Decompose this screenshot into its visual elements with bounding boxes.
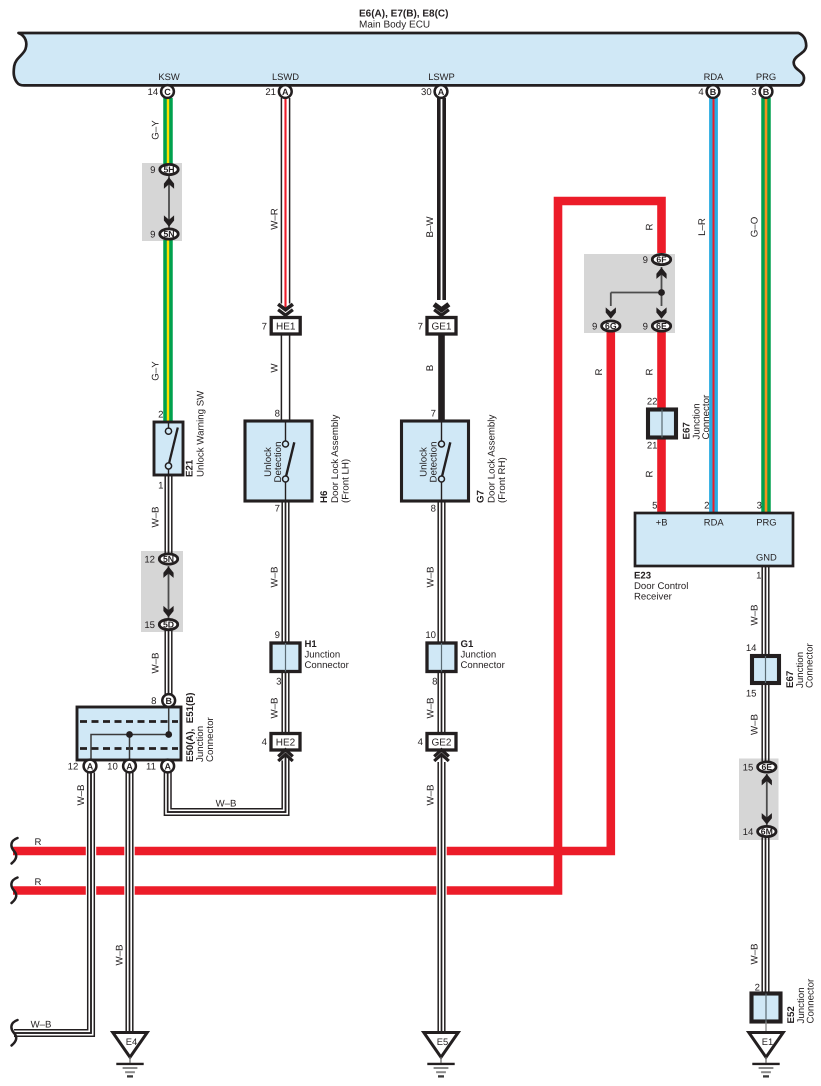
- svg-text:Connector: Connector: [461, 660, 506, 671]
- wire W-B G1 pin 8 to GE2: [438, 670, 445, 735]
- svg-text:21: 21: [647, 441, 658, 452]
- pin 3 B of ECU: [760, 85, 773, 98]
- svg-text:1: 1: [756, 571, 761, 582]
- svg-text:A: A: [87, 761, 94, 771]
- pin 14 C of ECU: [161, 85, 174, 98]
- arrow out of HE2: [278, 750, 293, 761]
- svg-text:Connector: Connector: [305, 660, 350, 671]
- connector HE2 pin 4: [271, 734, 300, 751]
- svg-text:14: 14: [148, 87, 159, 98]
- label Unlock Detection in G7: [419, 442, 440, 483]
- svg-text:W–B: W–B: [749, 605, 760, 626]
- connector-pair shade box 5N/5D: [141, 551, 183, 632]
- svg-text:W–B: W–B: [269, 567, 280, 588]
- svg-text:6F: 6F: [656, 255, 666, 265]
- label H1 Junction Connector: [305, 639, 350, 671]
- svg-text:6E: 6E: [761, 762, 772, 772]
- arrow into GE1: [434, 304, 449, 315]
- label E67 Junction Connector lower: [785, 643, 816, 688]
- svg-text:6E: 6E: [656, 321, 667, 331]
- svg-text:6G: 6G: [605, 321, 617, 331]
- ground E5: [424, 1033, 458, 1077]
- svg-text:G–O: G–O: [749, 216, 760, 237]
- svg-text:8: 8: [151, 696, 156, 707]
- svg-text:LSWD: LSWD: [272, 71, 299, 82]
- svg-text:E21: E21: [185, 459, 196, 477]
- svg-text:15: 15: [144, 620, 155, 631]
- svg-text:PRG: PRG: [756, 71, 776, 82]
- wire W-R LSWD from ECU to HE1 arrow: [281, 98, 289, 304]
- connector-pair shade box 6E/6M: [739, 759, 779, 841]
- pin 12 A of E50: [84, 760, 97, 773]
- torn end of upper R wire: [11, 838, 17, 864]
- door control receiver E23: [635, 513, 793, 566]
- svg-text:B: B: [710, 87, 717, 97]
- connector GE2 pin 4: [427, 734, 456, 751]
- junction connector E67 lower: [752, 656, 779, 683]
- wire B from GE1 to G7 pin 7: [438, 334, 445, 422]
- wire W-B H1 pin 3 to HE2: [282, 670, 289, 735]
- wire W-B G7 pin 8 to G1 pin 10: [438, 500, 445, 643]
- svg-text:7: 7: [275, 504, 280, 515]
- arrow into HE1: [278, 304, 293, 315]
- wire W-B GE2 down to ground E5: [438, 762, 445, 1033]
- svg-text:5N: 5N: [163, 229, 174, 239]
- svg-text:4: 4: [698, 87, 704, 98]
- connector-pair shade box 5H/5N: [142, 163, 182, 241]
- svg-text:PRG: PRG: [756, 517, 776, 528]
- wire W-B E21 pin 1 to 5N: [165, 474, 172, 553]
- wire W-B E50 pin 10A down to ground E4: [126, 773, 133, 1034]
- svg-text:Receiver: Receiver: [634, 591, 673, 602]
- svg-text:W–B: W–B: [216, 799, 237, 810]
- svg-text:E23: E23: [634, 571, 651, 582]
- svg-text:W–B: W–B: [151, 653, 162, 674]
- connector 5H pin 9: [160, 164, 178, 174]
- svg-text:Door Lock Assembly: Door Lock Assembly: [487, 415, 498, 503]
- svg-text:14: 14: [746, 643, 757, 654]
- svg-text:9: 9: [643, 322, 648, 333]
- wire G-Y from 5N to E21 pin 2: [163, 240, 173, 423]
- junction connector H1: [271, 643, 300, 672]
- wire G-Y KSW from ECU to 5H: [163, 98, 173, 164]
- svg-text:Connector: Connector: [205, 717, 216, 762]
- svg-text:H1: H1: [305, 639, 318, 650]
- arrow out of GE2: [434, 750, 449, 761]
- connector 6M pin 14: [758, 826, 776, 836]
- svg-text:HE1: HE1: [276, 321, 296, 332]
- svg-text:3: 3: [751, 87, 756, 98]
- svg-text:12: 12: [144, 555, 155, 566]
- wire R torn end to long vertical to 6F: [13, 201, 662, 891]
- connector GE1 pin 7: [427, 318, 456, 335]
- svg-text:G–Y: G–Y: [151, 361, 162, 381]
- svg-text:3: 3: [276, 677, 281, 688]
- svg-text:G–Y: G–Y: [151, 120, 162, 140]
- svg-text:G1: G1: [461, 639, 474, 650]
- label H6 Door Lock Assembly Front LH: [319, 415, 352, 503]
- wire R E67 pin 21 to E23 +B pin 5: [657, 436, 666, 514]
- svg-text:R: R: [35, 877, 42, 888]
- svg-text:R: R: [645, 471, 656, 478]
- svg-text:5H: 5H: [163, 165, 174, 175]
- pin 21 A of ECU: [279, 85, 292, 98]
- svg-text:H6: H6: [319, 490, 330, 503]
- svg-text:8: 8: [431, 504, 436, 515]
- connector HE1 pin 7: [271, 318, 300, 335]
- svg-text:A: A: [126, 761, 133, 771]
- svg-text:RDA: RDA: [704, 71, 725, 82]
- arrow tree between 6F 6G 6E: [606, 267, 667, 319]
- ground E1: [749, 1033, 783, 1077]
- label G1 Junction Connector: [461, 639, 506, 671]
- wire W-B 5D to E50 pin 8B: [165, 631, 172, 695]
- door lock assembly front LH H6: [245, 421, 312, 501]
- svg-text:Connector: Connector: [806, 978, 817, 1023]
- wire W-B H6 pin 7 to H1 pin 9: [282, 500, 289, 643]
- svg-text:G7: G7: [476, 490, 487, 503]
- svg-text:GE1: GE1: [431, 321, 451, 332]
- svg-text:Detection: Detection: [273, 442, 284, 483]
- svg-text:15: 15: [746, 689, 757, 700]
- white halos where ground wires cross red wires: [86, 836, 96, 896]
- svg-text:E6(A), E7(B), E8(C): E6(A), E7(B), E8(C): [359, 9, 448, 20]
- svg-text:RDA: RDA: [704, 517, 725, 528]
- unlock warning switch E21: [154, 422, 183, 475]
- pin 4 B of ECU: [707, 85, 720, 98]
- svg-text:22: 22: [647, 397, 658, 408]
- svg-text:E4: E4: [126, 1036, 137, 1047]
- svg-text:21: 21: [265, 87, 276, 98]
- wire R 6E to E67 pin 22: [657, 332, 666, 411]
- svg-text:R: R: [35, 837, 42, 848]
- svg-text:W–B: W–B: [31, 1020, 52, 1031]
- ground E4: [113, 1033, 147, 1077]
- svg-text:9: 9: [150, 165, 155, 176]
- svg-text:W–B: W–B: [749, 714, 760, 735]
- svg-text:W: W: [269, 363, 280, 373]
- svg-text:5: 5: [652, 501, 657, 512]
- svg-text:6M: 6M: [761, 827, 773, 837]
- svg-text:R: R: [594, 369, 605, 376]
- svg-text:B: B: [425, 365, 436, 371]
- svg-text:L–R: L–R: [697, 218, 708, 236]
- svg-text:Connector: Connector: [701, 394, 712, 439]
- svg-text:GND: GND: [756, 552, 777, 563]
- junction connector G1: [427, 643, 456, 672]
- wire G-O PRG from ECU to E23: [761, 98, 771, 514]
- junction connector E50(A) E51(B): [77, 707, 181, 760]
- svg-text:W–B: W–B: [76, 785, 87, 806]
- label E52 Junction Connector: [786, 978, 817, 1023]
- svg-text:Detection: Detection: [428, 442, 439, 483]
- junction connector E52: [752, 994, 781, 1022]
- label Unlock Detection in H6: [263, 442, 284, 483]
- wire B-W LSWP from ECU to GE1 arrow: [437, 98, 446, 300]
- svg-text:(Front RH): (Front RH): [497, 457, 508, 503]
- svg-text:9: 9: [592, 322, 597, 333]
- label G7 Door Lock Assembly Front RH: [476, 415, 509, 503]
- svg-text:11: 11: [146, 762, 156, 773]
- svg-text:Door Lock Assembly: Door Lock Assembly: [330, 415, 341, 503]
- label E23 Door Control Receiver: [634, 571, 688, 603]
- wire W-B E67 pin 15 to 6E: [762, 682, 769, 761]
- svg-text:7: 7: [418, 322, 423, 333]
- svg-text:W–R: W–R: [269, 208, 280, 230]
- svg-text:14: 14: [743, 827, 754, 838]
- svg-text:W–B: W–B: [269, 698, 280, 719]
- svg-text:8: 8: [432, 677, 437, 688]
- svg-text:9: 9: [275, 630, 280, 641]
- svg-text:E1: E1: [762, 1036, 773, 1047]
- arrow line between 5H and 5N: [168, 176, 170, 228]
- wire L-R RDA from ECU to E23: [709, 98, 718, 514]
- svg-text:R: R: [645, 224, 656, 231]
- svg-text:GE2: GE2: [431, 737, 451, 748]
- connector 5N pin 9: [160, 229, 178, 239]
- svg-text:5D: 5D: [163, 620, 174, 630]
- svg-text:R: R: [645, 369, 656, 376]
- svg-text:C: C: [164, 87, 171, 97]
- svg-text:LSWP: LSWP: [428, 71, 455, 82]
- svg-text:W–B: W–B: [425, 567, 436, 588]
- label E67 Junction Connector upper: [682, 394, 713, 439]
- svg-text:9: 9: [643, 255, 648, 266]
- svg-text:W–B: W–B: [425, 698, 436, 719]
- svg-text:HE2: HE2: [276, 737, 296, 748]
- svg-text:7: 7: [431, 409, 436, 420]
- svg-text:B–W: B–W: [425, 216, 436, 238]
- wire W-B E50 pin 12A down to torn end: [14, 773, 94, 1037]
- connector 6F pin 9: [652, 254, 670, 264]
- svg-text:7: 7: [262, 322, 267, 333]
- torn end of W-B ground wire: [11, 1020, 17, 1046]
- svg-text:10: 10: [425, 630, 436, 641]
- arrow line between 6E and 6M: [766, 774, 768, 825]
- svg-text:2: 2: [704, 501, 709, 512]
- svg-text:2: 2: [158, 410, 163, 421]
- svg-text:A: A: [164, 761, 171, 771]
- wire W-B 6M to E52 pin 2: [762, 838, 769, 995]
- svg-text:12: 12: [68, 762, 79, 773]
- Main Body ECU block E6(A) E7(B) E8(C): [14, 33, 807, 85]
- pin 30 A of ECU: [435, 85, 448, 98]
- label E21 Unlock Warning SW: [185, 390, 207, 477]
- svg-text:W–B: W–B: [151, 507, 162, 528]
- svg-text:B: B: [165, 696, 172, 706]
- svg-text:W–B: W–B: [749, 944, 760, 965]
- svg-text:10: 10: [107, 762, 118, 773]
- connector 5N pin 12: [159, 554, 177, 564]
- svg-text:Main Body ECU: Main Body ECU: [359, 19, 430, 30]
- svg-text:3: 3: [757, 501, 762, 512]
- svg-text:5N: 5N: [163, 554, 174, 564]
- junction connector E67 upper: [648, 410, 676, 438]
- connector 6E pin 9: [652, 321, 670, 331]
- svg-text:Connector: Connector: [805, 643, 816, 688]
- svg-text:A: A: [282, 87, 289, 97]
- wire W-B E23 GND pin 1 to E67 pin 14: [762, 565, 769, 657]
- svg-text:A: A: [438, 87, 445, 97]
- pin 10 A of E50: [123, 760, 136, 773]
- svg-text:15: 15: [743, 763, 754, 774]
- svg-text:9: 9: [150, 230, 155, 241]
- svg-text:30: 30: [421, 87, 432, 98]
- connector 6G pin 9: [602, 321, 620, 331]
- svg-text:8: 8: [275, 409, 280, 420]
- ECU title text: [359, 9, 448, 31]
- connector 5D pin 15: [159, 619, 177, 629]
- connector 6E pin 15: [758, 762, 776, 772]
- svg-text:(Front LH): (Front LH): [341, 459, 352, 503]
- svg-text:4: 4: [262, 737, 268, 748]
- pin 8 B of E50: [162, 694, 175, 707]
- svg-text:Door Control: Door Control: [634, 581, 688, 592]
- torn end of lower R wire: [11, 878, 17, 904]
- wire W from HE1 to H6 pin 8: [281, 333, 289, 421]
- pin 11 A of E50: [161, 760, 174, 773]
- svg-text:B: B: [763, 87, 770, 97]
- svg-text:W–B: W–B: [115, 945, 126, 966]
- door lock assembly front RH G7: [402, 421, 469, 501]
- svg-text:KSW: KSW: [158, 71, 180, 82]
- link E52 to E1: [765, 1022, 767, 1034]
- svg-text:Unlock Warning SW: Unlock Warning SW: [196, 390, 207, 477]
- svg-text:E5: E5: [437, 1036, 448, 1047]
- arrow line between 5N and 5D: [168, 566, 170, 618]
- svg-text:1: 1: [158, 481, 163, 492]
- svg-text:+B: +B: [656, 517, 668, 528]
- wire R from 6G down and left to torn end: [13, 332, 611, 852]
- wire W-B E50 pin 11A to HE2 via horizontal run: [164, 755, 288, 816]
- svg-text:W–B: W–B: [425, 785, 436, 806]
- label E50(A) E51(B) Junction Connector: [185, 693, 216, 762]
- svg-text:4: 4: [418, 737, 424, 748]
- connector-pair shade box 6F/6G/6E: [584, 254, 675, 333]
